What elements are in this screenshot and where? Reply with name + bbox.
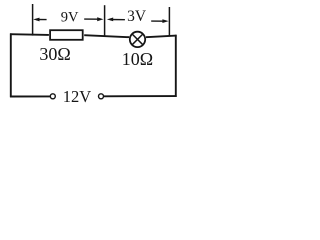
wire right edge bbox=[175, 35, 177, 97]
dimension tick left (9V) bbox=[32, 4, 34, 36]
svg-text:12V: 12V bbox=[63, 87, 92, 106]
wire lamp-to-right-corner segment bbox=[146, 36, 177, 38]
resistor 30Ω bbox=[50, 30, 83, 40]
dimension tick middle (shared 9V/3V) bbox=[104, 5, 106, 36]
svg-text:9V: 9V bbox=[61, 9, 79, 25]
terminal left (12V source) bbox=[50, 94, 55, 99]
svg-text:30Ω: 30Ω bbox=[39, 44, 70, 64]
terminal right (12V source) bbox=[99, 94, 104, 99]
dimension arrow 3V right bbox=[151, 19, 168, 23]
dimension tick right (3V) bbox=[168, 7, 170, 36]
dimension arrow 3V left bbox=[107, 18, 125, 22]
svg-text:10Ω: 10Ω bbox=[122, 49, 153, 69]
lamp 10Ω bbox=[130, 32, 145, 47]
dimension arrow 9V left bbox=[33, 18, 46, 22]
dimension arrow 9V right bbox=[84, 17, 103, 21]
wire left edge bbox=[10, 33, 12, 97]
wire resistor-to-lamp segment bbox=[84, 35, 129, 37]
wire bottom-left segment bbox=[10, 95, 50, 97]
wire top-left segment bbox=[10, 33, 49, 36]
wire bottom-right segment bbox=[104, 95, 177, 97]
svg-text:3V: 3V bbox=[127, 8, 147, 25]
